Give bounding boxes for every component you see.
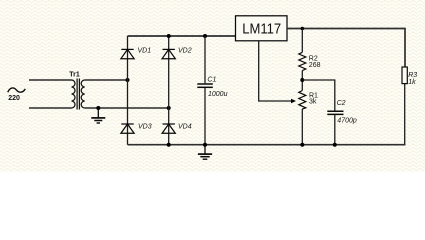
junction secondary bottom ground tap (96, 106, 100, 110)
svg-text:1k: 1k (408, 79, 416, 86)
wire R1 bottom lead (301, 109, 303, 145)
ground symbol at bottom rail under C1 (198, 145, 212, 160)
wire LM117 adjust pin to R1 wiper (259, 41, 292, 101)
junction top rail at C1 (203, 34, 207, 38)
AC source tilde symbol (8, 88, 26, 92)
capacitor C1 (197, 36, 213, 145)
svg-text:LM117: LM117 (242, 21, 281, 37)
svg-text:4700p: 4700p (337, 118, 357, 125)
junction bottom rail at C2 (333, 143, 337, 147)
wire primary bottom lead (29, 107, 72, 109)
junction secondary top at VD1 column (126, 78, 130, 82)
wire primary top lead (29, 79, 72, 81)
wire top rail rectifier output to LM117 input (128, 35, 236, 37)
diode VD2 (162, 49, 175, 58)
wire node to C2 top (302, 80, 335, 111)
wire VD2/VD4 column (168, 36, 170, 145)
wire C2 bottom lead (334, 115, 336, 145)
wire secondary top lead (85, 79, 128, 81)
junction bottom rail at R1 (300, 143, 304, 147)
junction secondary bottom at VD2 column (167, 106, 171, 110)
svg-text:VD4: VD4 (178, 123, 192, 130)
diode VD4 (162, 124, 175, 133)
svg-text:220: 220 (8, 95, 20, 102)
wire R2 top lead (301, 29, 303, 53)
wire secondary bottom lead (85, 107, 169, 109)
wire LM117 output rail (287, 29, 405, 68)
diode VD1 (121, 49, 134, 58)
junction bottom rail at VD4 column (167, 143, 171, 147)
junction output rail at R2 branch (301, 27, 305, 31)
svg-text:VD1: VD1 (138, 47, 152, 54)
transformer Tr1 (72, 79, 85, 110)
capacitor C2 (327, 111, 343, 114)
svg-text:268: 268 (309, 62, 321, 69)
ground symbol at transformer secondary (91, 108, 105, 123)
svg-text:3k: 3k (309, 98, 317, 105)
resistor R3 (402, 67, 407, 84)
wire VD1/VD3 column (127, 36, 129, 145)
regulator U1 LM117 body (236, 16, 288, 41)
junction bottom rail at C1/ground (203, 143, 207, 147)
arrow head at R1 wiper (291, 99, 296, 104)
svg-text:VD2: VD2 (178, 47, 192, 54)
wire R2 bottom to node (301, 71, 303, 91)
wire R3 bottom lead (404, 84, 406, 145)
junction top rail at VD2 column (167, 34, 171, 38)
junction node R2/R1/C2 (300, 78, 304, 82)
wire bottom rail (128, 144, 406, 146)
svg-text:1000u: 1000u (208, 91, 228, 98)
diode VD3 (121, 124, 134, 133)
svg-text:C1: C1 (207, 76, 216, 83)
svg-text:Tr1: Tr1 (69, 71, 80, 78)
svg-text:C2: C2 (337, 100, 346, 107)
resistor R2 (299, 52, 306, 70)
resistor R1 variable (299, 91, 306, 110)
svg-text:VD3: VD3 (138, 123, 152, 130)
